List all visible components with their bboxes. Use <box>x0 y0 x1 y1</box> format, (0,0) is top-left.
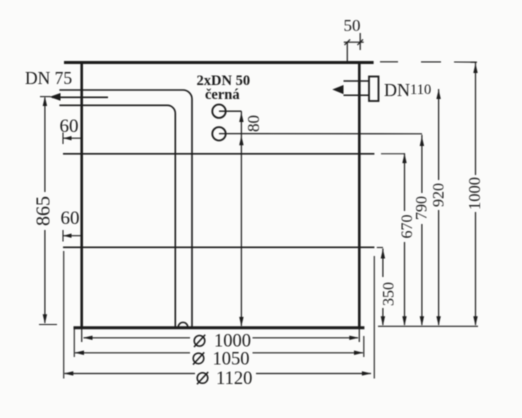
DN110 flow arrow <box>332 85 343 94</box>
diameter 1000 dimension <box>82 329 360 342</box>
svg-text:60: 60 <box>60 116 79 137</box>
label 1000 (rotated) <box>465 177 484 210</box>
seam line 2 <box>63 246 383 248</box>
label 80 (rotated) <box>244 115 263 132</box>
tank left wall <box>80 62 83 329</box>
label 790 (rotated) <box>413 196 430 220</box>
tank lid (top edge) <box>64 61 374 64</box>
label 350 (rotated) <box>381 282 398 306</box>
label 670 (rotated) <box>399 215 416 239</box>
svg-text:1050: 1050 <box>213 350 250 370</box>
tank bottom edge <box>74 326 365 329</box>
dimension 60 upper arrow <box>63 133 82 145</box>
seam line 1 <box>63 153 405 155</box>
label 50 top <box>344 16 361 35</box>
label 60 lower <box>61 208 80 229</box>
svg-text:DN 75: DN 75 <box>25 68 72 88</box>
DN110 end cap rectangle <box>369 77 379 102</box>
diameter 1050 dimension <box>74 329 364 357</box>
tank right wall <box>358 62 361 327</box>
svg-text:1120: 1120 <box>216 369 252 389</box>
dimension 60 lower arrow <box>63 230 82 242</box>
dimension 670 line <box>402 153 406 326</box>
label diameter 1050 <box>193 350 250 370</box>
label diameter 1120 <box>197 369 252 389</box>
dimension 1000 line <box>471 62 478 326</box>
dip pipe bottom arc <box>178 322 188 327</box>
dimension 350 line <box>381 249 385 326</box>
svg-text:920: 920 <box>431 183 448 207</box>
svg-text:1000: 1000 <box>214 332 251 352</box>
diameter 1120 dimension <box>64 251 375 379</box>
svg-text:60: 60 <box>61 208 80 229</box>
svg-text:865: 865 <box>32 196 54 226</box>
label DN 75 <box>25 68 72 88</box>
dimension 790 line <box>420 135 424 326</box>
dimension 50 line <box>344 33 364 64</box>
svg-text:80: 80 <box>244 115 263 132</box>
label 60 upper <box>60 116 79 137</box>
svg-text:50: 50 <box>344 16 361 35</box>
svg-text:350: 350 <box>381 282 398 306</box>
svg-text:1000: 1000 <box>465 177 484 210</box>
label 865 (rotated) <box>32 196 54 226</box>
right dims baseline <box>378 325 478 327</box>
top reference dashed line to 1000 dim <box>380 61 477 63</box>
dimension 80 line <box>239 111 243 326</box>
label 920 (rotated) <box>431 183 448 207</box>
label diameter 1000 <box>194 332 251 352</box>
dimension 865 line <box>39 97 57 325</box>
inlet dip pipe outer line <box>59 90 192 327</box>
label 2xDN 50 <box>197 73 251 89</box>
svg-text:černá: černá <box>205 87 240 103</box>
DN50 lower nozzle circle <box>212 127 422 140</box>
svg-text:DN110: DN110 <box>384 80 431 100</box>
dimension 920 line <box>436 89 440 326</box>
DN75 flow arrow <box>50 93 109 101</box>
DN110 nozzle pipe lines <box>344 81 379 95</box>
label cerna <box>205 87 240 103</box>
svg-text:790: 790 <box>413 196 430 220</box>
label DN110 <box>384 80 431 100</box>
DN50 upper nozzle circle <box>212 105 241 118</box>
inlet dip pipe inner line <box>59 105 175 327</box>
